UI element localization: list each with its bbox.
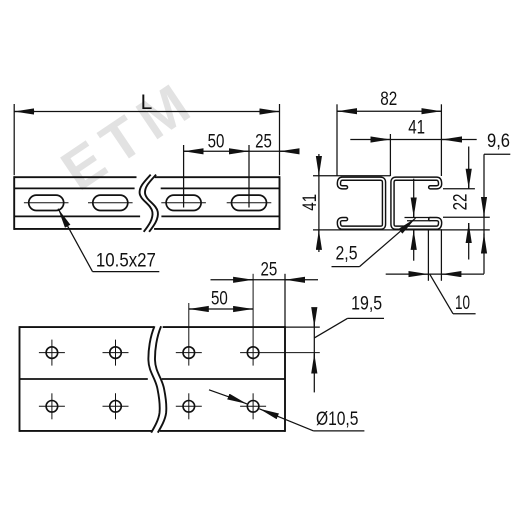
svg-text:25: 25: [261, 259, 278, 281]
svg-text:2,5: 2,5: [336, 243, 358, 265]
svg-text:9,6: 9,6: [487, 130, 510, 152]
svg-text:50: 50: [208, 131, 225, 153]
svg-text:L: L: [141, 91, 153, 114]
svg-text:50: 50: [211, 288, 228, 310]
svg-text:10.5x27: 10.5x27: [96, 250, 156, 272]
svg-text:19,5: 19,5: [351, 292, 382, 314]
svg-text:82: 82: [380, 88, 397, 110]
svg-text:Ø10,5: Ø10,5: [316, 408, 359, 430]
svg-text:22: 22: [450, 194, 472, 211]
svg-text:10: 10: [455, 292, 470, 314]
svg-text:41: 41: [299, 194, 321, 211]
svg-text:25: 25: [255, 131, 272, 153]
svg-text:41: 41: [408, 116, 425, 138]
